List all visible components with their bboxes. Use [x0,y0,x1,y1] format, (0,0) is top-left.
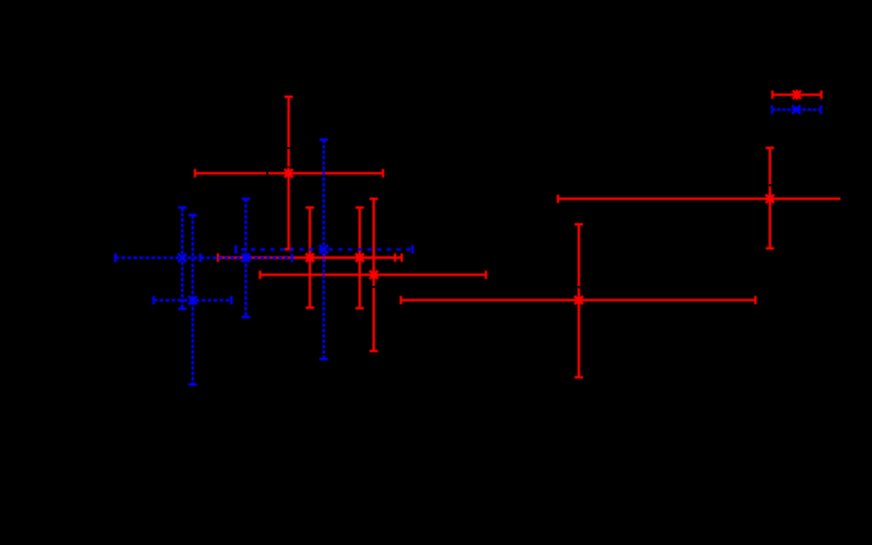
blue point B2 v-bar [189,215,197,384]
red point R6 marker [765,194,775,204]
red point R5 h-bar [401,296,756,304]
blue point B3 h-bar [200,254,292,262]
red point R1 marker [284,168,294,178]
blue point B3 v-bar [242,199,250,317]
red point R2 marker [305,253,315,263]
gap on R1 h-bar [266,172,268,175]
blue point B4 marker [320,245,328,253]
blue point B1 v-bar [178,208,186,309]
blue point B2 marker [189,296,197,304]
red point R5 v-bar [575,224,583,377]
blue point B1 marker [178,254,186,262]
red point R1 v-bar [284,97,292,249]
gap on R5 v-bar [578,286,580,288]
blue point B4 v-bar [320,140,328,359]
red point R5 marker [574,295,584,305]
red point R6 v-bar [766,148,774,249]
blue point B3 marker [242,254,250,262]
red point R3 v-bar [356,208,364,309]
red point R4 marker [369,270,379,280]
blue point B4 h-bar [236,245,413,253]
gap on R4 v-bar [373,286,375,288]
red point R6 h-bar [558,195,841,203]
red point R1 h-bar [195,169,383,177]
gap on R6 v-bar [769,184,771,186]
faint gap on R1 v-bar upper [287,166,289,168]
blue point B2 h-bar [154,296,232,304]
red point R4 h-bar [260,271,486,279]
legend blue sample [772,105,821,113]
red point R2 h-bar [218,253,402,261]
red point R3 h-bar [324,253,395,261]
red point R4 v-bar [370,199,378,351]
gap on R1 v-bar [287,147,289,149]
legend red sample [772,90,821,100]
red point R3 marker [355,253,365,263]
blue point B1 h-bar [115,254,200,262]
red point R2 v-bar [306,208,314,308]
